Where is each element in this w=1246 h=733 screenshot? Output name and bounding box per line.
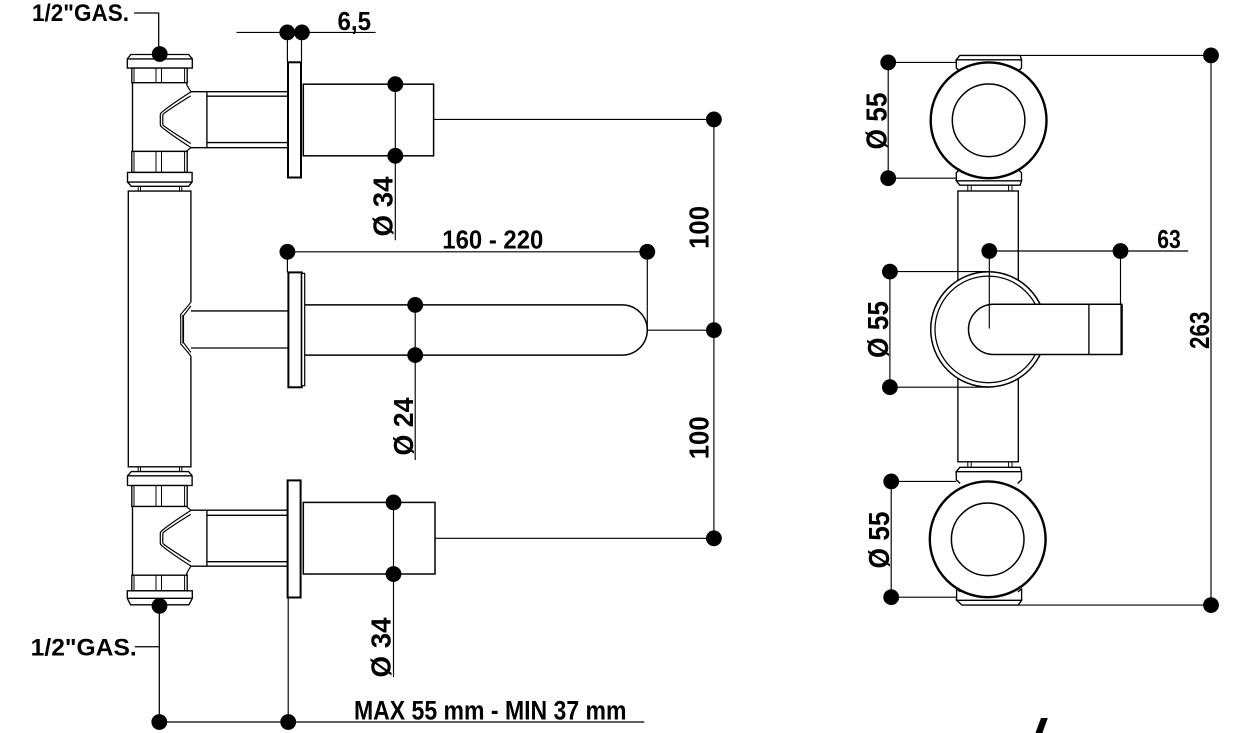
svg-text:Ø 34: Ø 34 (368, 176, 399, 236)
dim MAX/MIN line (159, 721, 644, 723)
dim Ø34 top dots (387, 76, 403, 92)
column body tube (128, 191, 191, 467)
extension wall face bottom (287, 598, 289, 723)
dim 100/100 vertical line (713, 119, 715, 538)
bottom knob circle (951, 503, 1024, 576)
valve V1 funnel cone (160, 85, 191, 151)
valve V1 neck ticks (138, 186, 182, 191)
top escutcheon bottom cap (956, 181, 1021, 185)
axis line top unit (434, 118, 714, 120)
valve V1 lower nut (132, 151, 187, 172)
wire leader top 1/2GAS (134, 13, 159, 48)
spout front view (969, 304, 1122, 354)
bottom escutcheon bottom cap (957, 600, 1022, 605)
bottom escutcheon top cap (956, 467, 1021, 471)
valve V1 lower cap (128, 172, 193, 186)
dim 263 line (1210, 55, 1212, 605)
dim 100/100 dots (706, 112, 722, 128)
svg-text:1/2"GAS.: 1/2"GAS. (31, 635, 137, 662)
dim 160-220 dots (280, 244, 296, 260)
svg-text:1/2"GAS.: 1/2"GAS. (32, 0, 129, 27)
top escutcheon cap (956, 55, 1021, 59)
handle cylinder bottom (303, 502, 435, 574)
dim Ø24 dots (407, 297, 423, 313)
svg-text:6,5: 6,5 (338, 6, 372, 36)
dim MAX/MIN dots (151, 714, 167, 730)
valve V1 top cap (127, 55, 192, 69)
valve V2 neck ticks (138, 467, 182, 472)
axis line bottom unit (435, 537, 714, 539)
dim 63 line (989, 251, 1188, 329)
valve V2 body (133, 507, 187, 576)
valve V2 lower nut (132, 575, 187, 591)
wire bottom GAS leader (135, 607, 160, 722)
svg-text:263: 263 (1184, 312, 1215, 350)
svg-text:100: 100 (683, 416, 714, 459)
wall plate top (288, 62, 301, 177)
valve V2 upper cap (128, 472, 193, 486)
valve V1 outlet tube to wall (191, 92, 289, 148)
wall plate bottom (288, 480, 301, 597)
dim Ø34 bottom leader (393, 502, 395, 677)
node dot below valve V2 (152, 598, 168, 614)
dim Ø24 leader (414, 305, 416, 460)
top cap neck ticks (968, 185, 1012, 191)
svg-text:MAX 55 mm - MIN 37 mm: MAX 55 mm - MIN 37 mm (354, 696, 627, 726)
dim 6,5 dots (279, 25, 295, 41)
middle supply tube to wall (191, 311, 289, 348)
middle funnel into column (181, 302, 191, 356)
wall plate middle collar (302, 273, 305, 385)
valve V1 body (133, 83, 187, 152)
svg-text:63: 63 (1157, 224, 1181, 254)
middle escutcheon outer circle (931, 272, 1046, 387)
dim 6,5 line (237, 31, 376, 33)
valve V2 bottom cap (127, 591, 192, 605)
wall plate middle (288, 272, 301, 387)
svg-text:Ø 55: Ø 55 (862, 93, 894, 150)
spout end line (1120, 304, 1122, 354)
logo fragment bottom right (1035, 718, 1047, 733)
bottom escutcheon outer circle (930, 481, 1046, 597)
valve V2 outlet tube to wall (191, 510, 288, 566)
wall plate top extension lines (287, 32, 301, 62)
valve V2 funnel cone (160, 507, 191, 573)
tube between top and middle escutcheons (958, 191, 1018, 300)
bottom cap neck ticks (968, 462, 1012, 468)
dim 160-220 line (287, 251, 647, 253)
svg-text:100: 100 (683, 206, 714, 249)
svg-text:Ø 55: Ø 55 (864, 512, 896, 569)
dim Ø34 bottom dots (386, 495, 402, 511)
spout tube (305, 305, 648, 355)
svg-text:Ø 24: Ø 24 (388, 397, 419, 455)
tube between middle and bottom escutcheons (958, 360, 1018, 462)
valve V2 upper nut (132, 486, 187, 507)
dim Ø55 top (888, 62, 956, 178)
top knob circle (952, 84, 1025, 157)
middle escutcheon inner rim circle (935, 276, 1042, 383)
svg-text:Ø 34: Ø 34 (365, 617, 396, 677)
svg-text:160 - 220: 160 - 220 (442, 225, 543, 255)
spout joint line (1088, 304, 1090, 354)
top escutcheon outer circle (931, 62, 1047, 178)
node dot on top valve cap (152, 46, 168, 62)
dim Ø55 middle (890, 272, 990, 388)
dim Ø34 top leader (394, 84, 396, 240)
dim 63 dots (981, 243, 997, 259)
valve V1 upper nut (132, 68, 187, 83)
svg-text:Ø 55: Ø 55 (863, 301, 895, 358)
dim 160-220 extensions (287, 252, 647, 330)
dim Ø55 bottom (891, 481, 956, 597)
spout axis line (647, 329, 714, 331)
dim 263 extensions (1018, 55, 1211, 605)
handle cylinder top (303, 84, 433, 156)
dim 263 dots (1203, 48, 1219, 64)
